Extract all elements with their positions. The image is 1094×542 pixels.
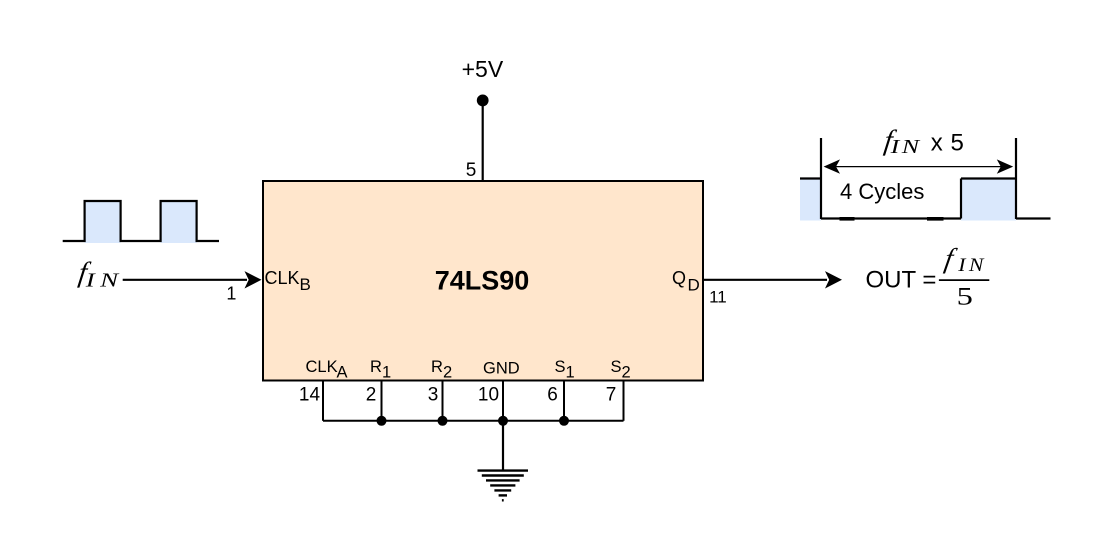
junction dot pin 2 [377, 416, 387, 426]
svg-text:2: 2 [622, 364, 631, 382]
wire pin 7 [623, 381, 625, 421]
svg-text:1: 1 [382, 364, 391, 382]
input waveform trace [63, 201, 219, 241]
output waveform tick 1 [840, 217, 855, 221]
output waveform tick 2 [927, 217, 944, 221]
svg-text:74LS90: 74LS90 [435, 265, 530, 295]
svg-text:S: S [611, 358, 622, 376]
svg-text:IN: IN [957, 256, 987, 276]
dimension label fIN x 5 [882, 124, 898, 156]
output waveform left top segment [800, 177, 821, 179]
junction dot pin 10 [498, 416, 508, 426]
output equation numerator fIN [942, 244, 959, 275]
svg-text:S: S [555, 358, 566, 376]
wire pin 3 [442, 381, 444, 421]
output waveform left tall edge [820, 138, 822, 219]
svg-text:5: 5 [466, 160, 477, 181]
wire fIN to CLKB [123, 279, 247, 281]
wire pin 6 [563, 381, 565, 421]
wire pin 10 [502, 381, 504, 421]
svg-text:1: 1 [226, 284, 236, 304]
svg-text:14: 14 [299, 385, 321, 406]
output waveform right tall edge [1015, 138, 1017, 219]
wire +5V to pin 5 [482, 100, 484, 181]
output waveform right baseline [1016, 217, 1051, 219]
output waveform right fill [961, 179, 1016, 221]
svg-text:4 Cycles: 4 Cycles [840, 179, 924, 204]
svg-text:6: 6 [547, 385, 558, 406]
wire pin 14 [322, 381, 324, 421]
node fIN label [77, 257, 93, 289]
svg-text:D: D [688, 276, 700, 295]
output waveform baseline [821, 217, 961, 219]
svg-text:x 5: x 5 [931, 130, 965, 157]
svg-text:3: 3 [428, 385, 439, 406]
dimension arrow fIN x 5 [828, 166, 1009, 168]
svg-text:CLK: CLK [306, 358, 338, 376]
svg-text:Q: Q [672, 268, 686, 288]
svg-text:f: f [942, 244, 959, 275]
ground bus wire [323, 420, 624, 422]
output equation denominator 5 [957, 283, 973, 311]
svg-text:1: 1 [566, 364, 575, 382]
wire QD to output arrow [703, 279, 827, 281]
svg-text:R: R [431, 358, 443, 376]
output waveform rising edge [960, 179, 962, 219]
wire pin 2 [381, 381, 383, 421]
output arrowhead [825, 271, 842, 288]
IC U1 74LS90 body [263, 181, 703, 381]
svg-text:2: 2 [443, 364, 452, 382]
svg-text:11: 11 [709, 288, 727, 307]
+5V terminal dot [477, 95, 489, 107]
input waveform fill pulse 1 [85, 201, 121, 243]
svg-text:R: R [370, 358, 382, 376]
output equation fraction bar [939, 279, 989, 281]
svg-text:10: 10 [478, 385, 499, 406]
svg-text:5: 5 [957, 283, 973, 311]
svg-text:CLK: CLK [265, 268, 300, 288]
svg-text:IN: IN [85, 270, 124, 292]
input arrowhead [245, 271, 262, 288]
svg-text:OUT =: OUT = [866, 267, 937, 294]
svg-text:2: 2 [366, 385, 377, 406]
output waveform left fill [800, 179, 821, 221]
svg-text:B: B [300, 275, 311, 294]
output waveform top segment [961, 177, 1016, 179]
svg-text:A: A [337, 363, 348, 381]
wire bus to ground [502, 421, 504, 470]
svg-text:+5V: +5V [462, 56, 504, 82]
junction dot pin 3 [438, 416, 448, 426]
svg-text:GND: GND [483, 360, 520, 378]
svg-text:IN: IN [889, 136, 921, 158]
ground symbol [478, 471, 529, 501]
junction dot pin 6 [559, 416, 569, 426]
svg-text:7: 7 [606, 385, 617, 406]
input waveform fill pulse 2 [161, 201, 197, 243]
